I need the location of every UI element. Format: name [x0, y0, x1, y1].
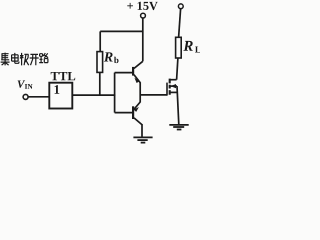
collector diagonal	[134, 118, 142, 125]
svg-text:1: 1	[53, 82, 60, 97]
body arrowhead	[170, 84, 176, 88]
emitter arrowhead	[134, 78, 139, 83]
label RL	[182, 39, 201, 55]
wire: +15V down to Q1 collector	[142, 18, 144, 61]
电	[12, 53, 19, 63]
drain stub	[170, 79, 177, 81]
transistor Q1 (NPN)	[133, 61, 143, 83]
svg-text:R: R	[103, 50, 113, 65]
emitter diagonal	[134, 75, 140, 83]
collector diagonal	[134, 61, 143, 68]
channel segments	[169, 79, 171, 95]
svg-text:L: L	[195, 45, 200, 55]
路	[39, 53, 48, 63]
ground (under MOSFET source)	[169, 125, 188, 130]
emitter arrowhead (points into bar)	[134, 107, 139, 112]
TTL gate box U1	[49, 83, 72, 109]
ground (under Q2)	[133, 137, 152, 142]
base bar	[132, 67, 134, 76]
wire: Rb top lead up to +15V rail	[99, 31, 101, 51]
input terminal (VIN node)	[23, 94, 28, 99]
source stub	[170, 91, 177, 93]
极	[20, 53, 29, 66]
resistor RL	[176, 37, 182, 58]
svg-text:+ 15V: + 15V	[127, 0, 158, 13]
resistor Rb	[97, 52, 103, 73]
wire: VIN terminal to gate input	[28, 96, 49, 98]
emitter diagonal	[134, 102, 140, 109]
transistor Q2 (PNP)	[133, 102, 142, 125]
wire: Q1 base	[115, 72, 133, 74]
node: centre junction vertical	[114, 73, 116, 113]
body stub	[170, 85, 177, 87]
集	[1, 53, 10, 66]
wire: gate output to centre junction	[72, 94, 115, 96]
output terminal (top right)	[178, 4, 183, 9]
wire: drain up to RL	[177, 58, 178, 80]
+15V terminal	[141, 13, 146, 18]
svg-text:IN: IN	[25, 83, 34, 91]
svg-text:R: R	[182, 39, 193, 55]
wire: RL top to terminal	[179, 9, 181, 38]
label Rb	[103, 50, 119, 65]
gate bar	[166, 83, 168, 96]
base bar	[132, 106, 134, 119]
wire: Rb bottom lead down to output wire	[99, 72, 101, 95]
svg-text:b: b	[114, 55, 119, 65]
label VIN	[17, 79, 34, 91]
wire: Q2 base	[115, 112, 133, 114]
label 集电极开路 (open collector)	[1, 53, 49, 66]
wire: MOSFET source down to ground	[177, 86, 179, 124]
wire: Q2 collector down	[141, 124, 143, 137]
开	[30, 54, 39, 65]
wire: +15V horizontal rail	[100, 30, 143, 32]
wire: emitter junction vertical	[139, 82, 141, 102]
MOSFET M1	[167, 79, 177, 96]
wire: emitter node to MOSFET gate	[140, 94, 167, 96]
